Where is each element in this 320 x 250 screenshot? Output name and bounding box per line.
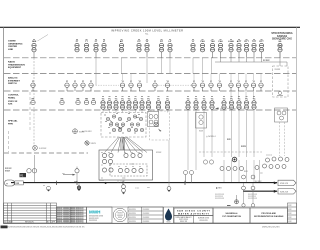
wire drop right x224	[223, 160, 225, 183]
svg-text:xx: xx	[128, 113, 130, 115]
control box	[99, 150, 153, 180]
svg-text:xx: xx	[116, 113, 118, 115]
control bubble pair x148.5	[146, 101, 150, 110]
enclosure inner symbol	[278, 91, 281, 94]
control bubble pair x122.5	[120, 101, 124, 110]
control bubble pair x116	[114, 101, 118, 110]
agency drop logo	[165, 209, 172, 221]
control bubble pair x109.5	[107, 101, 111, 110]
wire drop right x239	[238, 160, 240, 183]
wire stem x135.5	[135, 109, 137, 113]
sheet left border	[2, 27, 5, 223]
svg-text:xx: xx	[238, 96, 240, 98]
instrument bubble pair x96	[94, 43, 98, 52]
engineer seal	[113, 208, 127, 222]
svg-text:xx: xx	[108, 152, 110, 154]
svg-text:XXXX XXXXX XX: XXXX XXXXX XX	[71, 208, 85, 210]
svg-text:FSH: FSH	[219, 41, 224, 43]
svg-text:▶XXX: ▶XXX	[216, 187, 222, 190]
svg-text:xx: xx	[138, 39, 140, 41]
right dashed enclosure	[273, 66, 289, 97]
control valve x169	[168, 140, 170, 187]
svg-text:DWG-XXX-XX-XXX: DWG-XXX-XX-XXX	[262, 227, 280, 229]
instrument bubble pair x246.5	[244, 43, 248, 52]
svg-text:PSH: PSH	[200, 41, 205, 43]
below right drops	[244, 183, 254, 204]
flow element pair	[27, 169, 37, 173]
main line left terminal	[5, 180, 15, 186]
special pipe instrument B	[73, 129, 78, 134]
mid column stubs	[231, 91, 254, 99]
hub cluster	[101, 113, 146, 138]
svg-text:EQUIPMENT: EQUIPMENT	[8, 67, 22, 69]
svg-text:XXXX: XXXX	[241, 146, 247, 148]
wire riser x202	[202, 58, 204, 74]
analog bubble x131	[129, 83, 133, 87]
signature table text	[57, 208, 84, 224]
svg-text:xxx: xxx	[260, 173, 263, 175]
instrument bubble pair x220.5	[218, 43, 222, 52]
svg-text:MWH: MWH	[89, 210, 101, 215]
svg-text:INSTRUMENTATION DIAGRAM: INSTRUMENTATION DIAGRAM	[254, 215, 283, 218]
inline bubble drop2	[251, 186, 255, 190]
svg-text:XXXX: XXXX	[91, 143, 97, 145]
analog bubble x155	[153, 83, 157, 87]
right cluster bubbles	[255, 157, 289, 170]
main line left tag	[15, 181, 23, 185]
wire riser x34	[33, 58, 35, 99]
lane label radio transmission	[8, 61, 25, 70]
svg-text:XXXXX: XXXXX	[275, 69, 282, 71]
lane separator 2	[4, 73, 296, 75]
svg-text:xx: xx	[146, 39, 148, 41]
analog bubble x246	[244, 83, 248, 87]
wire right riser	[279, 52, 281, 62]
svg-text:P:\XXXXXX\XXXXX\XXXXXXXX XXXXX: P:\XXXXXX\XXXXX\XXXXXXXX XXXXX XXXXX-XXX…	[3, 227, 85, 229]
main line arrow flag 2	[278, 189, 296, 194]
top-right note	[271, 32, 293, 40]
valve below line left	[46, 186, 50, 190]
svg-text:XXXXXX: XXXXXX	[143, 213, 151, 215]
svg-text:xxx: xxx	[74, 181, 77, 183]
lane separator 4	[4, 109, 296, 111]
analog bubble x83	[81, 83, 85, 87]
svg-text:xx: xx	[108, 127, 110, 129]
small circle above tblock 1	[242, 204, 245, 207]
svg-text:xx: xx	[124, 152, 126, 154]
svg-text:XXXXXX: XXXXXX	[117, 215, 124, 217]
control bubble pair x196	[194, 101, 198, 110]
svg-text:xx: xx	[121, 39, 123, 41]
analog bubble x238.5	[236, 83, 240, 87]
mid pair a	[203, 160, 213, 164]
wire stem x103	[102, 109, 104, 113]
svg-text:XXXX XXXXX XX: XXXX XXXXX XX	[71, 210, 85, 212]
svg-text:xx: xx	[167, 96, 169, 98]
hatched instrument x156	[154, 122, 158, 126]
left note text	[5, 168, 12, 173]
svg-text:xx: xx	[125, 166, 127, 168]
instrument bubble pair x77	[75, 43, 79, 52]
svg-text:xx: xx	[253, 39, 255, 41]
control bubble x78	[76, 100, 80, 104]
control bubble x33	[31, 100, 35, 104]
instrument bubble pair x170	[168, 43, 172, 52]
svg-text:XXX: XXX	[199, 131, 204, 133]
wire drop x239	[238, 109, 240, 157]
analog bubble x33	[31, 83, 35, 87]
main line arrow flag 1	[278, 180, 296, 185]
svg-text:XXX: XXX	[8, 104, 13, 106]
instrument bubble pair x34	[32, 43, 36, 52]
control bubble x93.5	[91, 100, 95, 104]
svg-text:xx: xx	[101, 152, 103, 154]
svg-text:xx: xx	[115, 96, 117, 98]
control bubble pair x246.5	[244, 101, 248, 110]
svg-text:SPECIAL: SPECIAL	[8, 120, 18, 123]
svg-text:xx: xx	[105, 121, 107, 123]
svg-text:LINE: LINE	[8, 49, 14, 51]
svg-text:xx: xx	[195, 96, 197, 98]
svg-text:XXXXXX: XXXXXX	[129, 221, 137, 223]
wire riser x170	[169, 58, 171, 74]
svg-text:XXXX XXXXX XX: XXXX XXXXX XX	[71, 214, 85, 216]
svg-text:xx: xx	[103, 39, 105, 41]
wire stem x109.5	[109, 109, 111, 113]
title block top edge	[57, 206, 288, 208]
svg-text:xx: xx	[122, 133, 124, 135]
instrument bubble pair x193	[191, 43, 195, 52]
control bubble pair x212	[210, 101, 214, 110]
special pipe instrument A	[33, 145, 38, 150]
svg-text:XXXX: XXXX	[79, 131, 85, 133]
svg-text:xx: xx	[187, 96, 189, 98]
wire drop x196	[195, 109, 197, 170]
svg-text:XXXXXX: XXXXXX	[143, 217, 151, 219]
svg-text:ETHERNET: ETHERNET	[8, 80, 20, 82]
right info column text	[288, 205, 292, 223]
flow element tag	[20, 173, 27, 177]
wire drop x246.5	[246, 109, 248, 157]
svg-text:xx: xx	[102, 96, 104, 98]
boxed instrument right	[275, 108, 288, 122]
mwh logo cell	[87, 207, 113, 223]
lane label special pipe	[8, 120, 18, 126]
svg-text:PIPE: PIPE	[8, 123, 14, 125]
instrument bubble pair x239	[237, 43, 241, 52]
main line tick 3	[122, 181, 124, 185]
wire stem x116	[115, 109, 117, 113]
wire stem x129	[128, 109, 130, 113]
instrument bubble pair x202.5	[200, 43, 204, 52]
svg-text:No.: No.	[145, 34, 149, 36]
instrument bubble pair x121.5	[119, 43, 123, 52]
control bubble x86.5	[84, 100, 88, 104]
secondary line	[243, 191, 277, 192]
svg-text:xx: xx	[131, 152, 133, 154]
wire drop right x231.5	[231, 160, 233, 183]
svg-text:SIGNATURE CHG: SIGNATURE CHG	[272, 38, 292, 41]
svg-text:xx: xx	[246, 39, 248, 41]
instrument bubble pair x254	[252, 43, 256, 52]
analog bubble x261	[259, 83, 263, 87]
svg-text:XXXXXX: XXXXXX	[129, 209, 137, 211]
svg-text:xx: xx	[118, 127, 120, 129]
control bubble x62	[60, 100, 64, 104]
svg-text:xxx: xxx	[147, 187, 150, 189]
control bubble pair x129	[127, 101, 131, 110]
svg-text:xx: xx	[101, 165, 103, 167]
svg-text:CST OBSERVATION: CST OBSERVATION	[222, 215, 241, 218]
svg-text:XXXXXX: XXXXXX	[129, 213, 137, 215]
control bubble pair x239	[237, 101, 241, 110]
leader line	[38, 35, 49, 42]
svg-text:x xxx: x xxx	[135, 188, 139, 190]
svg-text:TRANSMISSION: TRANSMISSION	[8, 63, 25, 66]
agency sub cells	[174, 216, 213, 224]
svg-text:xx: xx	[141, 96, 143, 98]
instrument bubble pair x261.5	[259, 43, 263, 52]
label column dashed boundary lower	[8, 131, 10, 152]
svg-text:XXXXXX: XXXXXX	[129, 217, 137, 219]
svg-text:XXXXXX: XXXXXX	[143, 209, 151, 211]
svg-text:xx: xx	[139, 166, 141, 168]
svg-text:SAN DIEGO COUNTY: SAN DIEGO COUNTY	[177, 209, 211, 212]
svg-text:xx: xx	[202, 39, 204, 41]
svg-text:xx: xx	[109, 165, 111, 167]
svg-text:DATE: DATE	[8, 220, 13, 223]
dashed box mid left	[150, 111, 170, 140]
instrument bubble pair x212.5	[210, 43, 214, 52]
wire riser x121	[121, 58, 123, 74]
svg-text:XXXX XXXXX XX: XXXX XXXXX XX	[71, 218, 85, 220]
svg-text:XXXX XXXXX XX: XXXX XXXXX XX	[71, 220, 85, 222]
lane separator 5 partial	[4, 152, 88, 154]
wire stem x122.5	[122, 109, 124, 113]
instrument bubble pair x161.5	[159, 43, 163, 52]
analog bubble x231	[229, 83, 233, 87]
main line arrowhead 2	[274, 190, 278, 193]
svg-text:PROCESS AND: PROCESS AND	[261, 212, 276, 215]
svg-text:FE: FE	[20, 174, 23, 177]
svg-text:xx: xx	[220, 39, 222, 41]
wire stem x142	[141, 109, 143, 113]
svg-text:xx: xx	[211, 96, 213, 98]
svg-text:xx: xx	[132, 166, 134, 168]
agency name box	[174, 208, 213, 216]
svg-text:CENTER: CENTER	[8, 46, 17, 48]
svg-text:XXXX: XXXX	[5, 170, 11, 172]
svg-text:XXXX XXXXX XX: XXXX XXXXX XX	[71, 216, 85, 218]
analog bubble x219.5	[217, 83, 221, 87]
svg-text:XXXX XX: XXXX XX	[8, 101, 18, 103]
svg-text:LSHH: LSHH	[228, 41, 234, 43]
svg-text:xx: xx	[118, 166, 120, 168]
svg-text:ANALOG: ANALOG	[8, 77, 18, 80]
svg-text:xx xxx: xx xxx	[99, 180, 104, 182]
boxed instrument mid	[196, 113, 207, 129]
svg-text:xxxx: xxxx	[122, 178, 126, 180]
control bubble pair x188	[186, 101, 190, 110]
svg-text:XXXXXXXX: XXXXXXXX	[215, 198, 225, 200]
bottom margin corner mark	[1, 226, 8, 229]
svg-text:xx: xx	[138, 152, 140, 154]
analog bubble x75	[73, 83, 77, 87]
control bubble pair x224	[222, 101, 226, 110]
svg-text:XXXX XX: XXXX XX	[180, 221, 188, 223]
control box drop wires	[118, 180, 124, 183]
svg-text:xx: xx	[230, 39, 232, 41]
control bubble pair x158.5	[156, 101, 160, 110]
svg-text:xx: xx	[76, 39, 78, 41]
svg-text:xx: xx	[279, 39, 281, 41]
instrument pair above line	[183, 170, 193, 183]
wire riser x211	[211, 58, 213, 74]
svg-text:xxx: xxx	[62, 173, 65, 175]
svg-text:xx: xx	[33, 39, 35, 41]
instrument above line x77	[75, 169, 79, 173]
svg-text:TSH: TSH	[211, 41, 216, 43]
analog bubble x122.5	[120, 83, 124, 87]
svg-text:xx: xx	[169, 39, 171, 41]
svg-text:xx: xx	[128, 96, 130, 98]
svg-text:XXXXX: XXXXX	[117, 213, 123, 215]
svg-text:xx xx xx: xx xx xx	[266, 155, 272, 157]
svg-text:PANEL: PANEL	[8, 96, 16, 99]
svg-text:RADIO: RADIO	[8, 61, 15, 64]
svg-text:xx: xx	[86, 39, 88, 41]
svg-text:XX XXX: XX XXX	[255, 181, 262, 183]
control bubble pair x135.5	[133, 101, 137, 110]
analog bubble x202.5	[200, 83, 204, 87]
svg-text:xx: xx	[135, 96, 137, 98]
svg-text:xx: xx	[161, 39, 163, 41]
below pair x123	[122, 185, 126, 193]
svg-text:xx: xx	[109, 96, 111, 98]
svg-text:xx: xx	[95, 39, 97, 41]
note block B	[248, 194, 258, 200]
control bubble pair x254	[252, 101, 256, 110]
svg-text:XX XXX: XX XXX	[263, 60, 270, 62]
inline bubble drop1	[242, 186, 246, 190]
instrument bubble pair x147	[145, 43, 149, 52]
instrument spoke C	[85, 141, 89, 145]
svg-text:xx: xx	[223, 96, 225, 98]
svg-text:xx: xx	[109, 133, 111, 135]
note block A	[215, 194, 225, 200]
svg-text:100MW: 100MW	[8, 41, 16, 43]
analog bubble x139.5	[137, 83, 141, 87]
instrument below x236	[236, 195, 238, 200]
revision table	[4, 203, 57, 223]
svg-text:xx: xx	[138, 114, 140, 116]
analog bubble x194	[192, 83, 196, 87]
wire riser x96	[95, 58, 97, 85]
wire drop x224	[223, 109, 225, 157]
sheet title box	[250, 208, 288, 223]
svg-text:xx: xx	[203, 96, 205, 98]
svg-text:GENERATING: GENERATING	[8, 42, 23, 45]
control bubble pair x167.5	[165, 101, 169, 110]
wire drop right x254	[253, 160, 255, 183]
wire stem x158.5	[158, 109, 160, 113]
svg-text:xx: xx	[131, 127, 133, 129]
wire drop right x246.5	[246, 160, 248, 183]
wire drop x231.5	[231, 109, 233, 157]
svg-text:X-XXXX: X-XXXX	[39, 148, 47, 150]
svg-text:REVISION: REVISION	[25, 221, 34, 223]
instrument bubble pair x231	[229, 43, 233, 52]
instrument bubble pair x86.5	[84, 43, 88, 52]
wire drop x188	[187, 109, 189, 170]
svg-text:XXXX: XXXX	[156, 152, 162, 154]
analog bubble x67	[65, 83, 69, 87]
svg-text:xx: xx	[134, 133, 136, 135]
svg-text:xx: xx	[158, 96, 160, 98]
control bubble pair x204	[202, 101, 206, 110]
wire drop x254	[253, 109, 255, 157]
analog bubble x167.5	[165, 83, 169, 87]
lane label control panel	[8, 95, 19, 106]
analog lane dashed link	[96, 84, 120, 86]
small circle above tblock 2	[251, 204, 254, 207]
right info column	[288, 203, 297, 223]
control bubble pair x231.5	[229, 101, 233, 110]
svg-text:xx: xx	[104, 115, 106, 117]
lane separator 3	[4, 90, 296, 92]
svg-text:XXXX XXX: XXXX XXX	[199, 220, 208, 222]
wire riser x147	[146, 58, 148, 83]
junction dot	[105, 182, 107, 184]
mid dashed line	[199, 151, 262, 153]
svg-text:xx: xx	[246, 96, 248, 98]
svg-text:XXX-XX: XXX-XX	[280, 192, 289, 194]
svg-text:XXXX XXXXX XX: XXXX XXXXX XX	[71, 222, 85, 224]
svg-text:xx: xx	[101, 178, 103, 180]
svg-text:xx: xx	[261, 39, 263, 41]
wire drop x212	[211, 109, 213, 157]
lane label analog ethernet	[8, 77, 20, 86]
right hatch marks	[279, 44, 283, 48]
sheet bottom border	[3, 222, 297, 225]
svg-text:CONTROL: CONTROL	[8, 95, 19, 97]
svg-text:xx: xx	[212, 39, 214, 41]
svg-text:xx: xx	[122, 96, 124, 98]
bracket bus right	[215, 58, 287, 66]
instrument bubble pair x104	[102, 43, 106, 52]
svg-text:IMPROVING CREEK 100M LEVEL MIL: IMPROVING CREEK 100M LEVEL MILLIMETER	[111, 29, 183, 33]
svg-text:xx: xx	[126, 121, 128, 123]
dash marks below	[227, 204, 231, 207]
analog bubble x211	[209, 83, 213, 87]
project box	[213, 208, 250, 223]
control bubble pair x142	[140, 101, 144, 110]
wire drop x204	[203, 109, 205, 157]
main line arrowhead 1	[274, 182, 278, 185]
approval grid text	[129, 209, 150, 223]
svg-text:GEN: GEN	[32, 41, 37, 43]
svg-text:WATER AUTHORITY: WATER AUTHORITY	[178, 212, 210, 215]
signature table	[57, 207, 87, 223]
svg-text:xxx: xxx	[131, 164, 134, 166]
main process line	[11, 182, 277, 183]
mid filled bubble	[232, 157, 237, 162]
analog bubble x253.5	[251, 83, 255, 87]
svg-text:XXXXXX: XXXXXX	[143, 221, 151, 223]
svg-text:VALMEDIA &: VALMEDIA &	[225, 212, 238, 215]
svg-text:XXXX XXXXX XX: XXXX XXXXX XX	[71, 212, 85, 214]
svg-text:XXXXXXX: XXXXXXX	[89, 220, 98, 222]
